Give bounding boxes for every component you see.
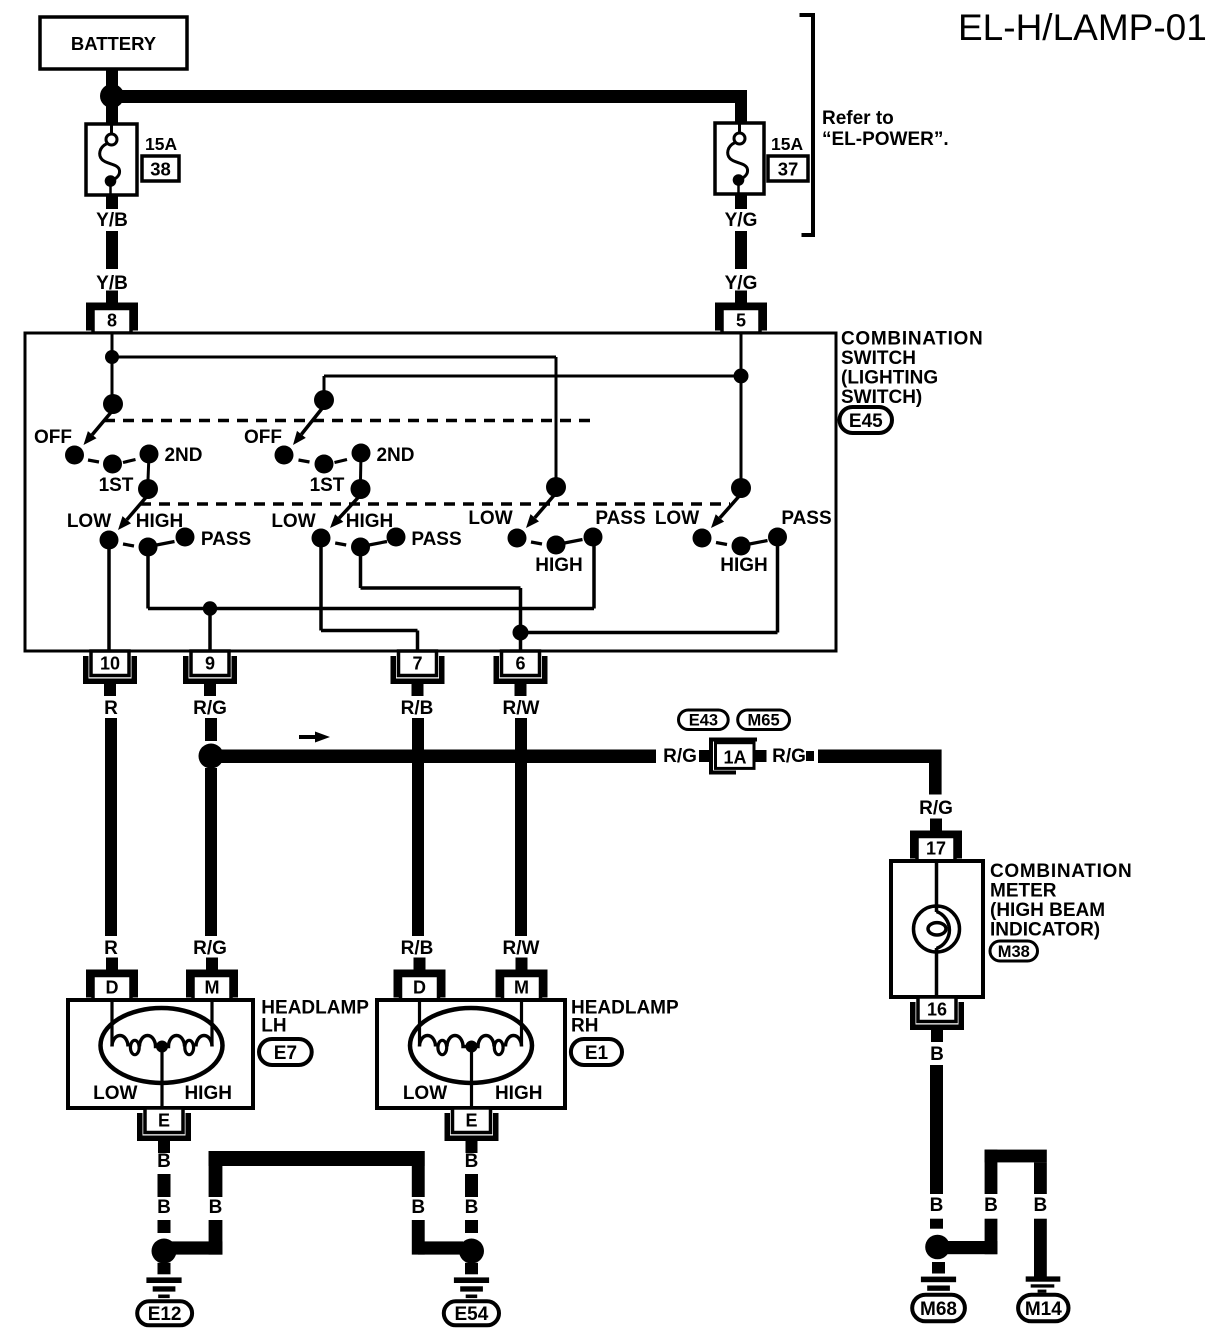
wire connector 8 into box xyxy=(111,333,114,357)
svg-text:B: B xyxy=(157,1151,171,1172)
wire B branch left leg xyxy=(170,1151,222,1255)
wire switch2 HIGH to connector 6 xyxy=(361,547,521,650)
ground ref E12 xyxy=(137,1301,192,1325)
svg-text:R/G: R/G xyxy=(193,698,227,719)
svg-text:B: B xyxy=(930,1044,944,1065)
svg-text:SWITCH: SWITCH xyxy=(841,348,916,369)
label B RH lower xyxy=(465,1197,479,1218)
svg-text:M68: M68 xyxy=(920,1299,957,1320)
svg-text:R/G: R/G xyxy=(919,798,953,819)
label 15A fuse 38 xyxy=(145,134,177,154)
combination meter box M38 xyxy=(891,861,983,997)
ground ref M14 xyxy=(1018,1295,1068,1322)
node junction A xyxy=(105,350,119,364)
node junction B xyxy=(734,369,749,384)
connector ref E1 xyxy=(571,1039,622,1065)
ground M14 xyxy=(1026,1276,1061,1292)
label B RH upper xyxy=(465,1151,479,1172)
connector ref E45 xyxy=(840,407,893,433)
wire R/B xyxy=(412,718,424,936)
label OFF switch 1 xyxy=(34,427,72,448)
arrow direction marker xyxy=(299,732,330,743)
label fuse number 38 xyxy=(142,156,179,181)
svg-text:LOW: LOW xyxy=(93,1083,137,1104)
label R/G upper xyxy=(193,698,227,719)
label R lower xyxy=(104,938,118,959)
svg-text:LOW: LOW xyxy=(67,511,111,532)
wire connector 5 into box xyxy=(740,333,743,376)
svg-text:PASS: PASS xyxy=(201,529,251,550)
svg-text:B: B xyxy=(465,1151,479,1172)
svg-text:B: B xyxy=(209,1197,223,1218)
combination switch box E45 xyxy=(25,333,836,651)
svg-text:R/W: R/W xyxy=(503,698,540,719)
node ground junction M68 xyxy=(925,1235,950,1260)
svg-text:D: D xyxy=(413,978,426,998)
svg-text:7: 7 xyxy=(412,654,422,674)
switch 2 OFF/1ST/2ND xyxy=(275,390,371,474)
label HIGH switch 4 xyxy=(720,555,768,576)
label R upper xyxy=(104,698,118,719)
wire main bus to fuse 37 xyxy=(112,90,747,124)
connector ref E43 xyxy=(679,710,729,730)
wire switch4 PASS to junction D xyxy=(521,537,778,633)
label B LH upper xyxy=(157,1151,171,1172)
svg-text:E: E xyxy=(465,1111,477,1131)
wire switch1 HIGH to switch3 PASS xyxy=(148,537,594,609)
label HIGH switch 1 xyxy=(136,511,184,532)
label 1ST switch 2 xyxy=(310,475,345,496)
label PASS switch 2 xyxy=(411,529,461,550)
svg-text:HIGH: HIGH xyxy=(535,555,583,576)
svg-text:2ND: 2ND xyxy=(164,445,202,466)
label 2ND switch 2 xyxy=(376,445,414,466)
svg-text:“EL-POWER”.: “EL-POWER”. xyxy=(822,129,949,150)
svg-text:1ST: 1ST xyxy=(99,475,134,496)
svg-text:R/G: R/G xyxy=(663,746,697,767)
svg-text:BATTERY: BATTERY xyxy=(71,33,157,54)
switch 2 LOW/HIGH/PASS xyxy=(312,479,406,557)
label HEADLAMP LH xyxy=(261,998,369,1037)
wire R/G xyxy=(205,768,217,936)
connector 16 xyxy=(910,997,964,1042)
wire stub left of 1A xyxy=(699,750,711,762)
label Y/G lower xyxy=(725,273,758,294)
svg-text:8: 8 xyxy=(107,311,117,331)
svg-text:M65: M65 xyxy=(748,712,780,730)
svg-text:SWITCH): SWITCH) xyxy=(841,387,922,408)
connector ref M38 xyxy=(990,941,1038,961)
wire line B to switch 2 pivot xyxy=(324,376,741,391)
fuse 37 15A xyxy=(715,123,764,194)
svg-text:Y/G: Y/G xyxy=(725,210,758,231)
wire junction A to switch 1 pivot xyxy=(111,357,114,395)
svg-text:M: M xyxy=(205,978,220,998)
svg-text:LOW: LOW xyxy=(468,508,512,529)
label COMBINATION METER (HIGH BEAM INDICATOR) xyxy=(990,861,1132,941)
svg-text:RH: RH xyxy=(571,1016,598,1037)
label LOW headlamp LH xyxy=(93,1083,137,1104)
wire R/G bus xyxy=(211,750,656,764)
label LOW switch 1 xyxy=(67,511,111,532)
connector 1A xyxy=(711,740,757,773)
label LOW switch 4 xyxy=(655,508,699,529)
svg-text:PASS: PASS xyxy=(595,508,645,529)
label PASS switch 1 xyxy=(201,529,251,550)
switch 1 OFF/1ST/2ND xyxy=(65,394,159,474)
wire junction C to connector 9 xyxy=(208,609,212,651)
wire junction B to switch 4 pivot xyxy=(740,376,743,479)
connector E RH xyxy=(445,1108,499,1153)
label B branch right xyxy=(411,1197,425,1218)
svg-text:HIGH: HIGH xyxy=(136,511,184,532)
svg-text:M14: M14 xyxy=(1025,1299,1062,1320)
label B branch left xyxy=(209,1197,223,1218)
svg-text:1ST: 1ST xyxy=(310,475,345,496)
label fuse number 37 xyxy=(768,156,808,181)
wire junction to fuse 38 xyxy=(106,100,118,124)
connector ref E7 xyxy=(259,1039,312,1065)
label B branch M right xyxy=(1034,1195,1048,1216)
label R/W upper xyxy=(503,698,540,719)
wire switch1 2ND to lower pivot xyxy=(148,454,149,480)
svg-text:OFF: OFF xyxy=(244,427,282,448)
wire B RH to junction xyxy=(465,1220,478,1233)
label R/G right of 1A xyxy=(772,746,806,767)
wire Y/B segment xyxy=(106,231,118,269)
svg-text:1A: 1A xyxy=(723,748,746,768)
svg-text:B: B xyxy=(930,1195,944,1216)
svg-text:B: B xyxy=(984,1195,998,1216)
svg-text:37: 37 xyxy=(778,159,799,180)
wire B meter xyxy=(930,1065,943,1194)
svg-text:LH: LH xyxy=(261,1016,286,1037)
svg-text:9: 9 xyxy=(205,654,215,674)
label LOW switch 2 xyxy=(271,511,315,532)
label HIGH switch 2 xyxy=(346,511,394,532)
switch 4 LOW/HIGH/PASS xyxy=(693,478,788,556)
svg-text:(LIGHTING: (LIGHTING xyxy=(841,368,938,389)
svg-text:R/G: R/G xyxy=(772,746,806,767)
label 2ND switch 1 xyxy=(164,445,202,466)
connector 9 xyxy=(183,651,237,696)
svg-text:15A: 15A xyxy=(771,134,803,154)
svg-text:METER: METER xyxy=(990,881,1057,902)
connector 8 xyxy=(86,291,138,334)
node battery junction xyxy=(100,84,124,108)
label HIGH headlamp LH xyxy=(184,1083,232,1104)
label R/G lower xyxy=(193,938,227,959)
wire Y/G segment xyxy=(735,231,747,269)
node ground junction LH xyxy=(152,1239,177,1264)
svg-text:5: 5 xyxy=(736,311,746,331)
high beam indicator bulb xyxy=(914,861,960,997)
connector D LH xyxy=(86,958,138,1001)
wire R/G segment xyxy=(205,718,217,741)
label Y/G upper xyxy=(725,210,758,231)
ground ref E54 xyxy=(444,1301,499,1325)
svg-text:(HIGH BEAM: (HIGH BEAM xyxy=(990,900,1105,921)
label B meter lower xyxy=(930,1195,944,1216)
label PASS switch 3 xyxy=(595,508,645,529)
svg-text:LOW: LOW xyxy=(271,511,315,532)
label R/G meter xyxy=(919,798,953,819)
svg-text:R/B: R/B xyxy=(401,938,434,959)
connector 17 xyxy=(910,819,962,862)
ground E54 xyxy=(454,1263,489,1298)
switch 3 LOW/HIGH/PASS xyxy=(508,477,603,555)
svg-text:LOW: LOW xyxy=(655,508,699,529)
svg-text:B: B xyxy=(157,1197,171,1218)
svg-text:Refer to: Refer to xyxy=(822,108,894,129)
label LOW switch 3 xyxy=(468,508,512,529)
wire R xyxy=(105,718,117,936)
svg-text:E7: E7 xyxy=(274,1043,297,1064)
svg-text:E43: E43 xyxy=(689,712,718,730)
label OFF switch 2 xyxy=(244,427,282,448)
svg-text:M: M xyxy=(514,978,529,998)
svg-text:COMBINATION: COMBINATION xyxy=(841,329,983,350)
svg-text:R/W: R/W xyxy=(503,938,540,959)
ground ref M68 xyxy=(912,1295,965,1322)
label LOW headlamp RH xyxy=(403,1083,447,1104)
wire B branch to M14 xyxy=(943,1150,1047,1277)
svg-text:2ND: 2ND xyxy=(376,445,414,466)
label Refer to EL-POWER xyxy=(822,108,949,150)
svg-text:M38: M38 xyxy=(998,943,1030,961)
svg-text:10: 10 xyxy=(100,654,120,674)
bracket refer to EL-POWER xyxy=(800,15,814,235)
svg-text:LOW: LOW xyxy=(403,1083,447,1104)
connector 7 xyxy=(391,651,445,696)
svg-text:B: B xyxy=(465,1197,479,1218)
svg-text:15A: 15A xyxy=(145,134,177,154)
svg-text:R: R xyxy=(104,698,118,719)
svg-text:D: D xyxy=(106,978,119,998)
wire switch2 2ND to lower pivot xyxy=(359,453,363,480)
label Y/B lower xyxy=(96,273,128,294)
headlamp LH bulb filaments xyxy=(101,1000,223,1108)
svg-text:E1: E1 xyxy=(585,1043,609,1064)
label PASS switch 4 xyxy=(781,508,831,529)
wire Y/B below fuse 38 xyxy=(106,195,118,209)
svg-text:38: 38 xyxy=(150,159,171,180)
svg-text:PASS: PASS xyxy=(411,529,461,550)
ground M68 xyxy=(921,1262,956,1297)
label HIGH switch 3 xyxy=(535,555,583,576)
label R/B upper xyxy=(401,698,434,719)
svg-text:OFF: OFF xyxy=(34,427,72,448)
label Y/B upper xyxy=(96,210,128,231)
connector M RH xyxy=(496,958,548,1001)
label R/W lower xyxy=(503,938,540,959)
headlamp LH box xyxy=(68,1000,253,1108)
switch 1 LOW/HIGH/PASS xyxy=(100,479,195,557)
wire B RH segment xyxy=(465,1174,478,1197)
svg-text:E: E xyxy=(158,1111,170,1131)
battery xyxy=(40,17,187,69)
wire B meter to junction xyxy=(930,1219,943,1229)
svg-text:R/B: R/B xyxy=(401,698,434,719)
label R/B lower xyxy=(401,938,434,959)
wire B crossover bus xyxy=(209,1151,425,1166)
svg-text:16: 16 xyxy=(927,1000,947,1020)
connector ref M65 xyxy=(738,710,790,730)
svg-text:B: B xyxy=(1034,1195,1048,1216)
node ground junction RH xyxy=(459,1239,484,1264)
label 15A fuse 37 xyxy=(771,134,803,154)
svg-text:HIGH: HIGH xyxy=(184,1083,232,1104)
wire battery feed xyxy=(106,69,118,89)
fuse 38 15A xyxy=(86,124,137,195)
node R/G junction xyxy=(199,744,224,769)
wire Y/B to connector 8 xyxy=(106,293,118,303)
svg-text:HIGH: HIGH xyxy=(495,1083,543,1104)
svg-text:R/G: R/G xyxy=(193,938,227,959)
connector 6 xyxy=(494,651,548,696)
label 1ST switch 1 xyxy=(99,475,134,496)
connector 5 xyxy=(715,291,767,334)
svg-text:E12: E12 xyxy=(148,1304,182,1325)
svg-text:Y/B: Y/B xyxy=(96,210,128,231)
ground E12 xyxy=(146,1263,181,1298)
wire Y/G to connector 5 xyxy=(735,293,747,303)
svg-text:PASS: PASS xyxy=(781,508,831,529)
wire R/G bus right segment xyxy=(806,750,942,795)
svg-text:E54: E54 xyxy=(454,1304,488,1325)
node junction D xyxy=(513,625,529,641)
node junction C xyxy=(203,601,217,615)
label COMBINATION SWITCH (LIGHTING SWITCH) xyxy=(841,329,983,409)
dashed coupling line lower xyxy=(140,502,730,506)
connector E LH xyxy=(137,1108,191,1153)
wire switch2 LOW to connector 7 xyxy=(321,538,418,650)
headlamp RH box xyxy=(377,1000,565,1108)
svg-text:E45: E45 xyxy=(849,411,883,432)
wire B LH to junction xyxy=(158,1220,171,1233)
wire stub right of 1A xyxy=(756,750,767,762)
label HEADLAMP RH xyxy=(571,998,679,1037)
svg-text:HIGH: HIGH xyxy=(346,511,394,532)
svg-text:17: 17 xyxy=(926,839,946,859)
wire B branch right leg xyxy=(412,1151,463,1255)
svg-text:6: 6 xyxy=(515,654,525,674)
label R/G left of 1A xyxy=(663,746,697,767)
title EL-H/LAMP-01 xyxy=(958,7,1207,48)
wire R/W xyxy=(515,718,527,936)
wire switch1 LOW to connector 10 xyxy=(107,540,111,650)
label B branch M left xyxy=(984,1195,998,1216)
svg-text:R: R xyxy=(104,938,118,959)
svg-text:INDICATOR): INDICATOR) xyxy=(990,920,1100,941)
wire line A to passing switch 3 xyxy=(112,357,556,478)
connector M LH xyxy=(186,958,238,1001)
svg-text:HIGH: HIGH xyxy=(720,555,768,576)
wire B LH segment xyxy=(158,1174,171,1197)
dashed coupling line upper xyxy=(104,419,594,423)
label HIGH headlamp RH xyxy=(495,1083,543,1104)
wire Y/G below fuse 37 xyxy=(735,194,747,209)
label B meter xyxy=(930,1044,944,1065)
label B LH lower xyxy=(157,1197,171,1218)
connector D RH xyxy=(394,958,446,1001)
svg-text:B: B xyxy=(411,1197,425,1218)
headlamp RH bulb filaments xyxy=(410,1000,532,1108)
connector 10 xyxy=(83,651,137,696)
svg-text:EL-H/LAMP-01: EL-H/LAMP-01 xyxy=(958,7,1207,48)
svg-text:COMBINATION: COMBINATION xyxy=(990,861,1132,882)
